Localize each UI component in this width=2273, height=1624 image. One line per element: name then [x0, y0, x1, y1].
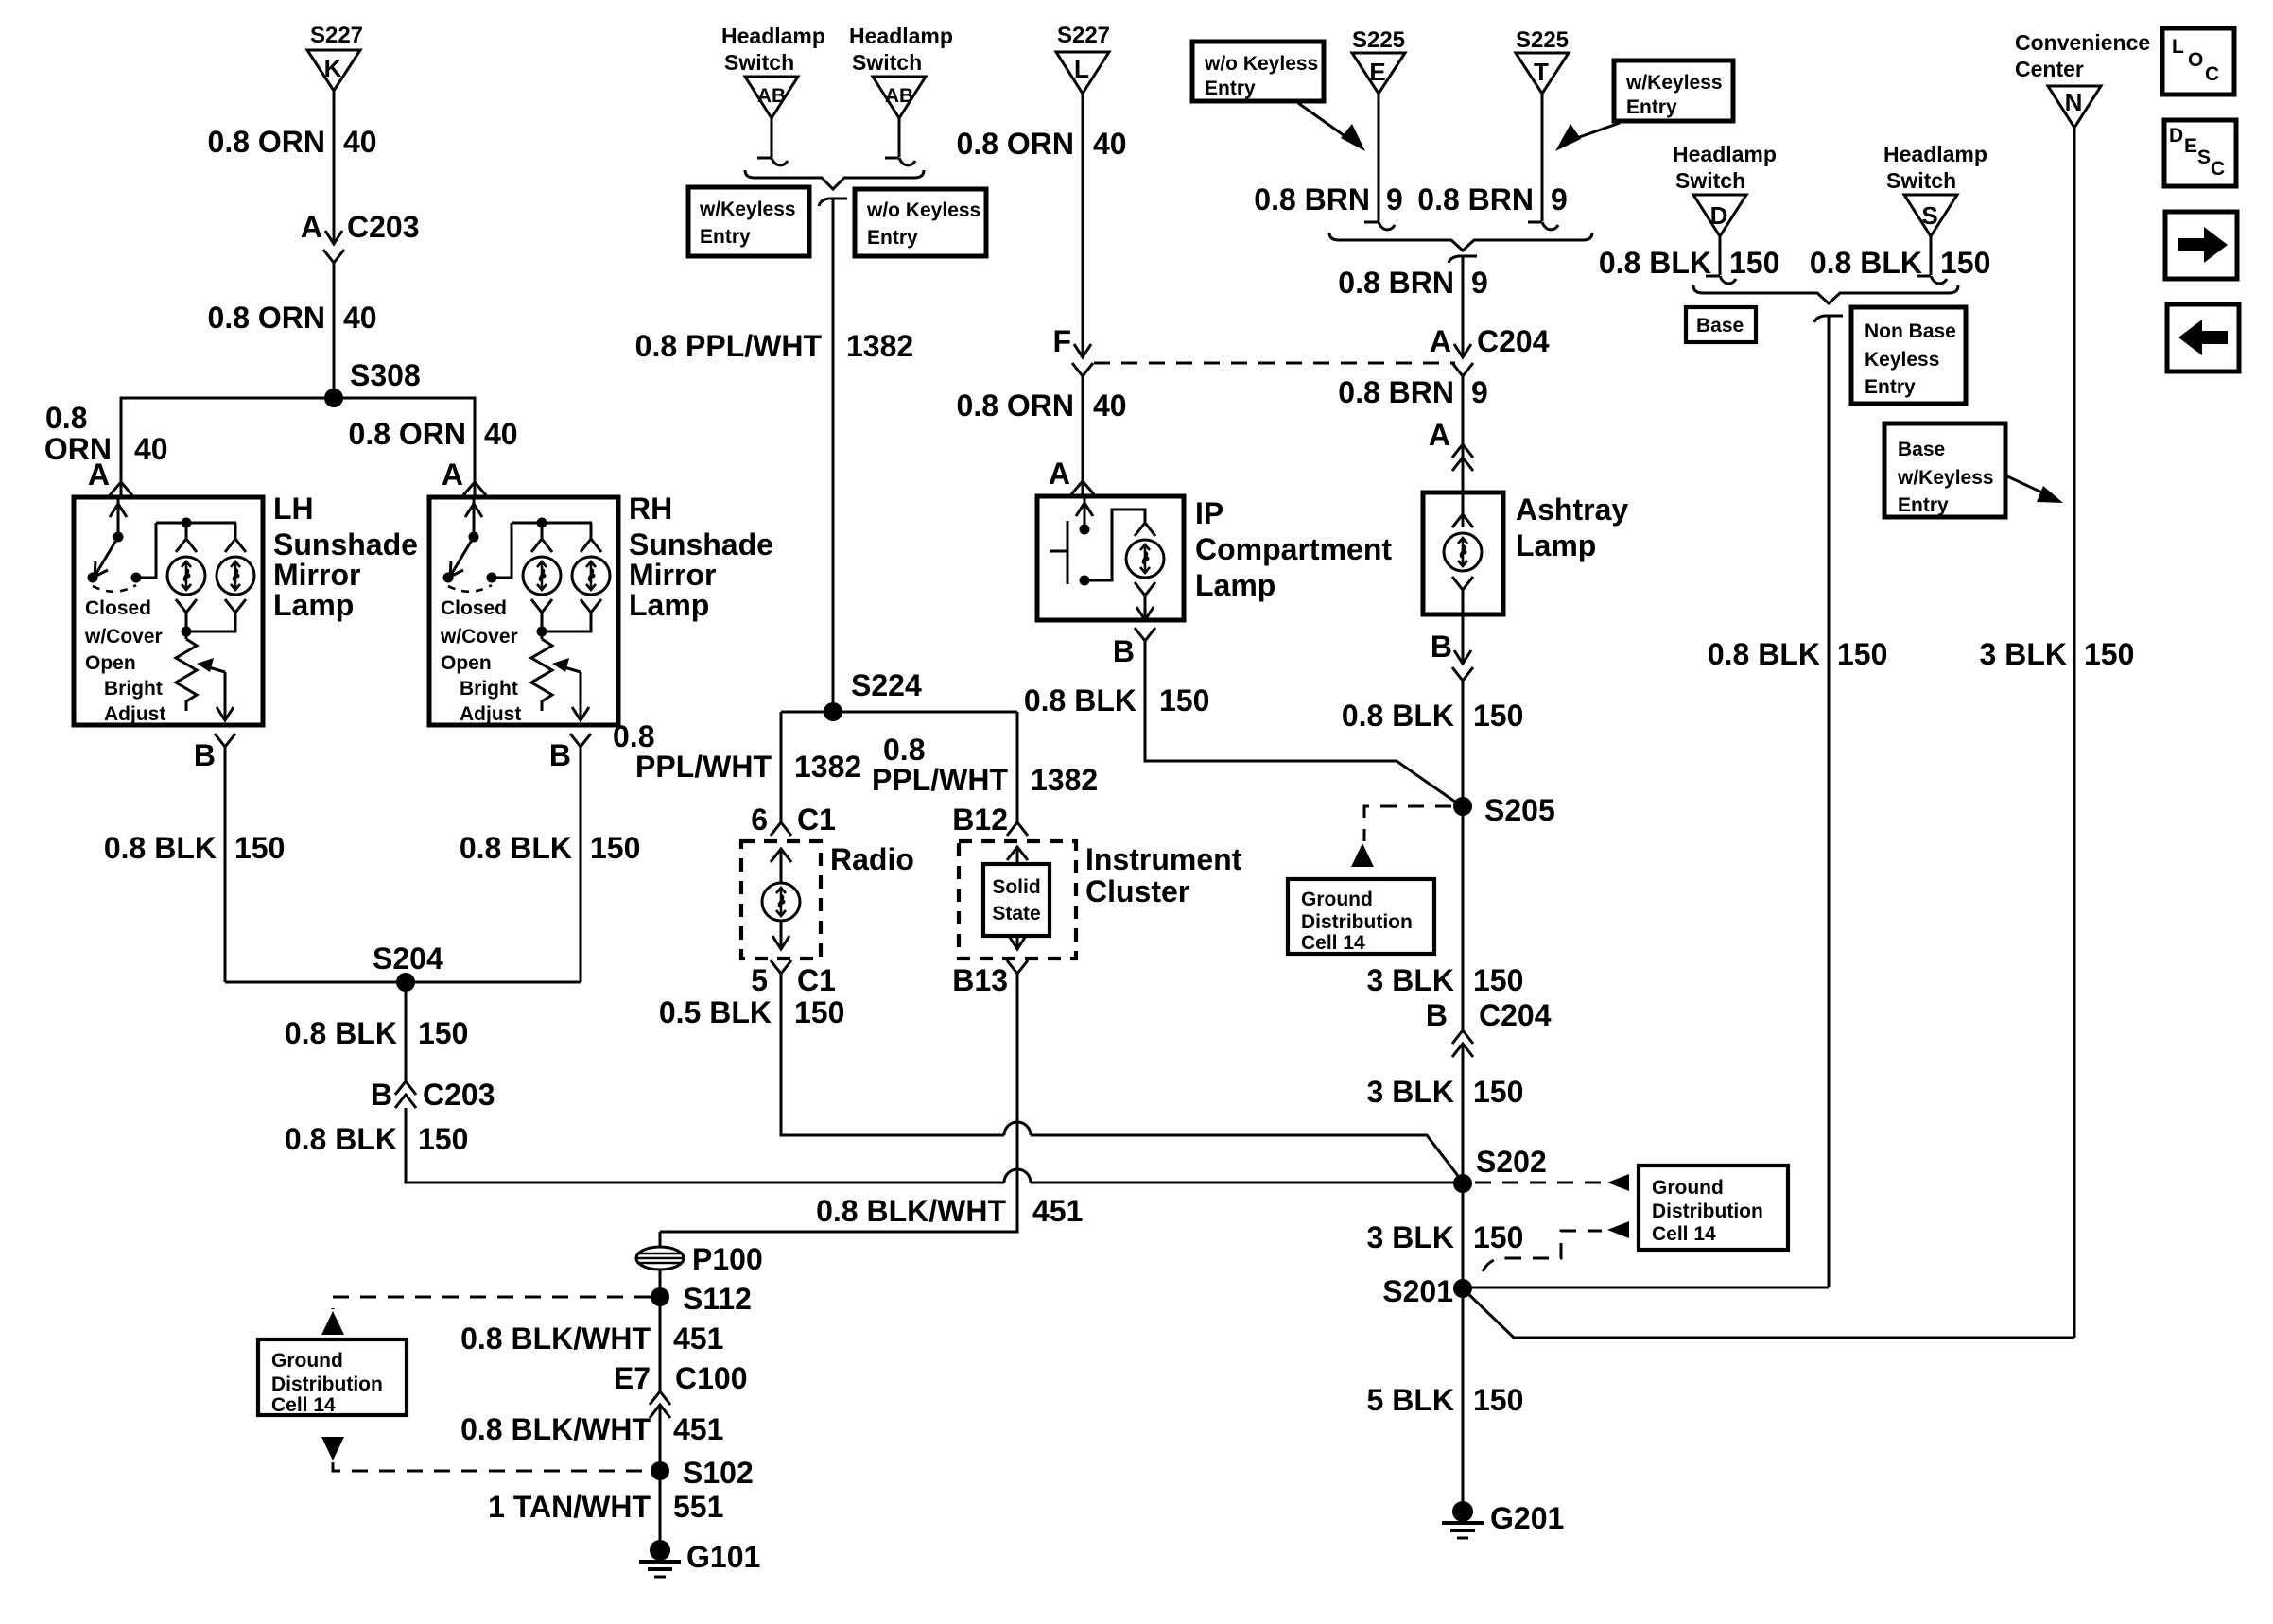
LH lamp branch wire — [156, 523, 236, 539]
splice S205 — [1453, 793, 1555, 827]
ground G201 — [1442, 1501, 1564, 1538]
svg-text:Lamp: Lamp — [1516, 528, 1596, 562]
svg-text:0.8 BRN: 0.8 BRN — [1338, 375, 1454, 409]
connector 5 C1 (radio) — [751, 960, 836, 997]
svg-text:S201: S201 — [1382, 1274, 1453, 1308]
label 0.8 PPL/WHT 1382 — [635, 329, 914, 363]
svg-text:E7: E7 — [614, 1361, 651, 1395]
svg-text:w/Keyless: w/Keyless — [1625, 72, 1723, 94]
svg-text:0.8 BLK: 0.8 BLK — [285, 1122, 397, 1156]
connector B12 (instrument cluster) — [952, 803, 1028, 837]
radio dashed outline — [741, 841, 821, 959]
dashed reference from S205 to ground distribution — [1351, 806, 1451, 867]
dashed reference from S201 to ground distribution — [1483, 1221, 1629, 1271]
svg-text:B: B — [1113, 634, 1135, 668]
svg-text:0.8: 0.8 — [613, 719, 654, 753]
svg-text:Mirror: Mirror — [629, 558, 716, 592]
label 0.8 BLK 150 (S) — [1810, 246, 1991, 280]
svg-text:3 BLK: 3 BLK — [1980, 637, 2067, 671]
wire 0.8 BRN 9 from C204 to ashtray — [1462, 376, 1465, 492]
svg-text:0.8 ORN: 0.8 ORN — [349, 417, 466, 451]
svg-text:1 TAN/WHT: 1 TAN/WHT — [488, 1490, 651, 1524]
wire 3 BLK 150 from S202 to S201 — [1462, 1183, 1465, 1288]
svg-text:Cell 14: Cell 14 — [1652, 1223, 1716, 1245]
label 0.8 PPL/WHT 1382 (cluster feed) — [872, 733, 1098, 797]
RH lamp bulb 2 — [572, 539, 610, 613]
component label LH Sunshade Mirror Lamp — [273, 492, 418, 622]
svg-text:150: 150 — [794, 995, 844, 1029]
svg-text:0.8 BLK: 0.8 BLK — [1810, 246, 1922, 280]
label 0.8 ORN 40 — [208, 301, 377, 335]
connector B C203 — [371, 1078, 495, 1112]
component label Ashtray Lamp — [1516, 492, 1628, 562]
label 0.8 BLK/WHT 451 — [460, 1412, 723, 1446]
node A (LH sunshade lamp pin A) — [88, 458, 132, 495]
svg-text:B: B — [1426, 998, 1448, 1032]
svg-text:0.8 BLK: 0.8 BLK — [1024, 683, 1136, 717]
label 0.8 BLK 150 (ashtray) — [1342, 699, 1524, 733]
label headlamp switch (D) — [1673, 142, 1777, 193]
LH lamp bulb 1 — [167, 539, 205, 613]
label headlamp switch (S) — [1883, 142, 1987, 193]
wire down to P100 — [659, 1232, 662, 1248]
svg-text:C: C — [2205, 63, 2219, 85]
svg-text:Convenience: Convenience — [2015, 30, 2150, 55]
LH sunshade mirror lamp box — [74, 497, 263, 725]
svg-text:Instrument: Instrument — [1085, 842, 1242, 876]
svg-text:40: 40 — [343, 125, 377, 159]
svg-text:State: State — [992, 903, 1040, 924]
box Base w/Keyless Entry — [1884, 423, 2005, 517]
connector S225 T — [1516, 27, 1569, 94]
wire from S201 right to 0.8 BLK wire — [1463, 1287, 1829, 1289]
svg-text:AB: AB — [757, 85, 786, 107]
svg-text:Open: Open — [441, 652, 492, 674]
hook below brace — [819, 199, 847, 206]
cluster input arrow — [1007, 847, 1028, 864]
svg-text:A: A — [1430, 324, 1451, 358]
svg-text:0.8: 0.8 — [45, 401, 87, 435]
wire 0.8 BRN 9 from E — [1364, 94, 1395, 230]
hook below brace (C204 feed) — [1449, 256, 1477, 263]
connector AB headlamp switch (left triangle) — [745, 77, 798, 118]
IP lamp door switch — [1050, 496, 1093, 586]
wire 0.8 ORN 40 from S227 K to C203 — [333, 91, 336, 242]
svg-text:0.8 BRN: 0.8 BRN — [1254, 182, 1370, 216]
svg-text:150: 150 — [2084, 637, 2134, 671]
splice S102 — [651, 1456, 754, 1490]
svg-text:w/Keyless: w/Keyless — [1897, 467, 1994, 489]
label 0.8 BRN 9 (E) — [1254, 182, 1403, 216]
wire 0.8 BRN 9 from T — [1528, 94, 1558, 230]
node A (ashtray lamp pin A) — [1429, 418, 1473, 471]
legend box right arrow — [2165, 212, 2237, 279]
svg-text:0.8 BRN: 0.8 BRN — [1417, 182, 1534, 216]
svg-text:C203: C203 — [423, 1078, 495, 1112]
label 0.5 BLK 150 — [659, 995, 845, 1029]
svg-text:Compartment: Compartment — [1195, 532, 1392, 566]
box w/Keyless Entry (T reference) — [1614, 60, 1733, 121]
svg-text:Switch: Switch — [1675, 168, 1745, 193]
svg-text:9: 9 — [1551, 182, 1568, 216]
component label RH Sunshade Mirror Lamp — [629, 492, 773, 622]
svg-text:B: B — [549, 738, 571, 772]
label Instrument Cluster — [1085, 842, 1242, 908]
splice S112 — [651, 1282, 752, 1316]
label 1 TAN/WHT 551 — [488, 1490, 723, 1524]
hook below brace (ground feed) — [1814, 316, 1843, 322]
ashtray lamp bulb — [1444, 492, 1482, 614]
label 0.8 BRN 9 (T) — [1417, 182, 1568, 216]
svg-text:Center: Center — [2015, 57, 2084, 81]
svg-text:A: A — [301, 210, 322, 244]
svg-text:S102: S102 — [683, 1456, 754, 1490]
svg-text:Bright: Bright — [104, 678, 163, 700]
wire 0.8 BLK/WHT 451 from C100 to S102 — [659, 1405, 662, 1471]
connector N convenience center — [2048, 86, 2101, 128]
svg-text:Solid: Solid — [992, 876, 1040, 898]
wire 1 TAN/WHT 551 from S102 to G101 — [659, 1471, 662, 1541]
wire joining LH and RH at S204 — [225, 981, 581, 984]
brace joining E and T wires — [1329, 233, 1592, 251]
wire 0.8 BLK 150 from C203 to S202 — [406, 1108, 1455, 1183]
arrow from w/Keyless Entry to T wire — [1555, 123, 1620, 151]
node A (RH sunshade lamp pin A) — [442, 458, 486, 495]
wire 0.8 BLK 150 from D — [1706, 236, 1736, 284]
label 0.8 BLK 150 (LH) — [104, 831, 286, 865]
wire lamp outputs join — [186, 613, 235, 639]
svg-text:150: 150 — [1159, 683, 1209, 717]
svg-text:150: 150 — [1837, 637, 1887, 671]
svg-text:150: 150 — [1473, 963, 1523, 997]
svg-text:0.8 BLK: 0.8 BLK — [285, 1016, 397, 1050]
switch position text (RH) — [440, 597, 521, 725]
svg-text:P100: P100 — [692, 1242, 763, 1276]
wire from AB (left) — [757, 118, 788, 165]
ashtray lamp box — [1423, 492, 1503, 614]
svg-text:40: 40 — [484, 417, 518, 451]
wire S308 branch horizontal — [121, 398, 475, 497]
svg-text:40: 40 — [1093, 127, 1127, 161]
dashed reference from S112 to ground distribution — [321, 1297, 651, 1335]
label 3 BLK 150 — [1367, 963, 1524, 997]
label 0.8 BLK 150 — [285, 1016, 469, 1050]
connector 6 C1 (radio) — [751, 803, 836, 837]
svg-text:Headlamp: Headlamp — [721, 24, 825, 48]
svg-text:w/Cover: w/Cover — [84, 626, 163, 648]
wire hop over instrument cluster wire (radio return) — [1004, 1122, 1031, 1135]
svg-text:B: B — [371, 1078, 392, 1112]
svg-text:6: 6 — [751, 803, 768, 837]
label 3 BLK 150 — [1367, 1220, 1524, 1254]
svg-text:Entry: Entry — [1898, 494, 1949, 516]
svg-text:O: O — [2188, 49, 2203, 71]
svg-text:Ashtray: Ashtray — [1516, 492, 1628, 527]
RH lamp cover switch — [443, 497, 512, 592]
radio lamp output arrow — [772, 921, 789, 949]
switch position text (LH) — [84, 597, 165, 725]
wire 3 BLK 150 from N down — [2073, 128, 2076, 1338]
label convenience center — [2015, 30, 2150, 81]
svg-text:E: E — [1369, 58, 1385, 86]
svg-text:551: 551 — [673, 1490, 723, 1524]
svg-text:S204: S204 — [373, 942, 443, 976]
RH lamp bulb 1 — [523, 539, 561, 613]
connector S225 E — [1352, 27, 1405, 94]
svg-text:Entry: Entry — [867, 227, 918, 249]
svg-text:D: D — [2169, 125, 2183, 147]
label 0.8 ORN 40 — [957, 389, 1127, 423]
svg-text:150: 150 — [1729, 246, 1779, 280]
svg-text:S112: S112 — [683, 1282, 752, 1316]
label 0.8 PPL/WHT 1382 (radio feed) — [613, 719, 861, 784]
svg-text:C100: C100 — [675, 1361, 748, 1395]
svg-text:Lamp: Lamp — [1195, 568, 1275, 602]
svg-text:Cluster: Cluster — [1085, 874, 1189, 908]
connector B13 (instrument cluster) — [952, 960, 1028, 997]
svg-text:Closed: Closed — [85, 597, 151, 619]
svg-text:T: T — [1534, 58, 1549, 86]
svg-text:150: 150 — [590, 831, 640, 865]
svg-text:150: 150 — [1940, 246, 1990, 280]
svg-text:Sunshade: Sunshade — [629, 527, 773, 561]
IP compartment lamp box — [1037, 496, 1184, 620]
connector B C204 — [1426, 998, 1552, 1057]
svg-text:B: B — [1431, 630, 1452, 664]
cluster output arrow — [1009, 936, 1026, 949]
junction (RH lamp return) — [537, 627, 547, 637]
svg-text:Non Base: Non Base — [1865, 320, 1956, 342]
svg-text:150: 150 — [1473, 1383, 1523, 1417]
svg-text:3 BLK: 3 BLK — [1367, 963, 1454, 997]
svg-text:Entry: Entry — [1865, 376, 1916, 398]
dashed reference from ground distribution to S102 — [321, 1437, 651, 1471]
svg-text:Bright: Bright — [460, 678, 518, 700]
arrow from Base w/Keyless Entry to convenience center wire — [2005, 475, 2063, 503]
connector A C203 — [301, 210, 420, 263]
svg-text:Headlamp: Headlamp — [1673, 142, 1777, 166]
wire to instrument cluster — [1016, 712, 1019, 822]
svg-text:A: A — [1429, 418, 1450, 452]
arrow from w/o Keyless Entry to E wire — [1298, 103, 1365, 151]
IP lamp output arrow — [1136, 596, 1154, 620]
svg-text:40: 40 — [134, 432, 168, 466]
junction (RH lamp feed) — [537, 518, 547, 528]
wire 0.8 ORN 40 from F to IP lamp — [1082, 376, 1084, 496]
wire 0.8 BLK 150 from LH B to S204 — [224, 747, 227, 982]
wire 3 BLK 150 from S205 to C204 — [1462, 806, 1465, 1030]
svg-text:S227: S227 — [310, 23, 363, 48]
box Ground Distribution Cell 14 (S112/S102) — [258, 1339, 407, 1416]
svg-text:S: S — [1921, 201, 1937, 230]
node A (IP lamp pin A) — [1049, 457, 1094, 494]
svg-text:Base: Base — [1898, 439, 1945, 460]
svg-text:S308: S308 — [350, 358, 421, 392]
svg-text:C204: C204 — [1479, 998, 1552, 1032]
svg-text:Ground: Ground — [1301, 889, 1373, 910]
svg-text:Cell 14: Cell 14 — [1301, 932, 1365, 954]
svg-text:K: K — [324, 54, 342, 82]
svg-text:Ground: Ground — [1652, 1177, 1724, 1199]
svg-text:40: 40 — [343, 301, 377, 335]
label 0.8 BLK 150 (base ground) — [1708, 637, 1888, 671]
svg-text:N: N — [2065, 88, 2083, 116]
svg-text:5 BLK: 5 BLK — [1367, 1383, 1454, 1417]
svg-text:0.8 ORN: 0.8 ORN — [208, 125, 325, 159]
label 0.8 BLK/WHT 451 — [816, 1194, 1083, 1228]
svg-text:B12: B12 — [952, 803, 1008, 837]
wire 0.8 BLK 150 from S — [1917, 236, 1947, 284]
label 5 BLK 150 — [1367, 1383, 1524, 1417]
label headlamp switch (left) — [721, 24, 825, 75]
svg-text:0.5 BLK: 0.5 BLK — [659, 995, 772, 1029]
wire lamp outputs join (RH) — [542, 613, 591, 639]
node B (RH pin B) — [549, 734, 591, 772]
wire 3 BLK 150 from C204 to S202 — [1462, 1044, 1465, 1183]
box w/o Keyless Entry (E reference) — [1192, 42, 1324, 101]
svg-text:Switch: Switch — [852, 50, 922, 75]
wire 5 BLK 150 from S201 to G201 — [1462, 1288, 1465, 1503]
svg-text:150: 150 — [418, 1016, 468, 1050]
svg-text:Keyless: Keyless — [1865, 349, 1939, 371]
label 0.8 BLK 150 (IP) — [1024, 683, 1210, 717]
resistor bright adjust (RH) — [531, 639, 552, 711]
svg-text:B13: B13 — [952, 963, 1008, 997]
svg-text:0.8 BLK/WHT: 0.8 BLK/WHT — [460, 1412, 651, 1446]
svg-text:9: 9 — [1471, 375, 1488, 409]
svg-text:Cell 14: Cell 14 — [271, 1394, 336, 1416]
wiper arrow (LH bright adjust) — [197, 658, 234, 720]
connector A C204 — [1430, 324, 1550, 376]
wire 0.8 BLK/WHT 451 from B13 to P100 run — [660, 974, 1017, 1232]
svg-text:S202: S202 — [1476, 1145, 1547, 1179]
wire 0.8 BLK 150 from ashtray B to S205 — [1462, 681, 1465, 806]
svg-text:0.8 ORN: 0.8 ORN — [957, 389, 1074, 423]
IP lamp wire to bulb — [1084, 510, 1145, 580]
svg-text:RH: RH — [629, 492, 672, 526]
svg-text:Mirror: Mirror — [273, 558, 360, 592]
solid state box — [983, 864, 1050, 936]
svg-text:IP: IP — [1195, 496, 1223, 530]
connector AB headlamp switch (right triangle) — [873, 77, 926, 118]
wire 0.8 BLK 150 down to S201 — [1828, 316, 1831, 1287]
svg-text:1382: 1382 — [794, 750, 861, 784]
svg-text:Distribution: Distribution — [1301, 911, 1413, 933]
wire S224 branch horizontal — [781, 711, 1017, 714]
svg-text:150: 150 — [234, 831, 285, 865]
label 0.8 BLK 150 (D) — [1599, 246, 1780, 280]
svg-text:150: 150 — [1473, 1220, 1523, 1254]
svg-text:A: A — [442, 458, 463, 492]
wire hop over instrument cluster wire — [1004, 1169, 1031, 1183]
radio illumination lamp — [762, 883, 800, 921]
label 0.8 BLK 150 (RH) — [460, 831, 641, 865]
svg-text:Headlamp: Headlamp — [849, 24, 953, 48]
svg-text:AB: AB — [885, 85, 913, 107]
junction (LH lamp return) — [182, 627, 192, 637]
svg-text:L: L — [2172, 36, 2184, 58]
svg-text:w/Keyless: w/Keyless — [699, 199, 796, 220]
wire from AB (right) — [885, 118, 915, 165]
svg-text:0.8 BLK/WHT: 0.8 BLK/WHT — [816, 1194, 1006, 1228]
svg-text:PPL/WHT: PPL/WHT — [635, 750, 772, 784]
svg-text:w/o Keyless: w/o Keyless — [1204, 53, 1318, 75]
svg-text:C204: C204 — [1477, 324, 1550, 358]
IP lamp bulb — [1126, 523, 1164, 596]
svg-text:0.8 PPL/WHT: 0.8 PPL/WHT — [635, 329, 823, 363]
svg-text:150: 150 — [418, 1122, 468, 1156]
connector S227 K (to headlamp switch) — [307, 23, 363, 91]
svg-text:40: 40 — [1093, 389, 1127, 423]
resistor bright adjust (LH) — [176, 639, 197, 711]
svg-text:Switch: Switch — [1886, 168, 1956, 193]
svg-text:Lamp: Lamp — [629, 588, 709, 622]
svg-text:451: 451 — [1032, 1194, 1083, 1228]
svg-text:C: C — [2211, 158, 2225, 180]
brace joining D and S wires — [1693, 285, 1958, 303]
svg-text:B: B — [194, 738, 216, 772]
box Ground Distribution Cell 14 (S205) — [1288, 879, 1434, 954]
dashed reference from S202 to ground distribution — [1475, 1174, 1629, 1191]
svg-text:Entry: Entry — [700, 226, 751, 248]
svg-text:Switch: Switch — [724, 50, 794, 75]
LH lamp bulb 2 — [217, 539, 254, 613]
label 0.8 ORN 40 (LH branch) — [44, 401, 168, 466]
label 0.8 BRN 9 — [1338, 375, 1488, 409]
label 0.8 BLK/WHT 451 — [460, 1322, 723, 1356]
svg-text:A: A — [88, 458, 110, 492]
svg-text:F: F — [1052, 324, 1071, 358]
svg-text:L: L — [1074, 55, 1089, 83]
node B (ashtray pin B) — [1431, 614, 1473, 681]
svg-text:Closed: Closed — [441, 597, 507, 619]
svg-text:9: 9 — [1386, 182, 1403, 216]
connector S227 L — [1056, 23, 1110, 94]
label 3 BLK 150 — [1367, 1075, 1524, 1109]
svg-text:Ground: Ground — [271, 1350, 343, 1372]
label 0.8 BLK 150 — [285, 1122, 469, 1156]
svg-text:G201: G201 — [1490, 1501, 1564, 1535]
splice S204 — [373, 942, 443, 992]
instrument cluster dashed outline — [959, 841, 1076, 959]
wire P100 to S112 — [659, 1270, 662, 1297]
wire 0.8 BLK 150 from S204 to C203 — [405, 982, 408, 1081]
brace joining AB wires — [745, 170, 924, 189]
svg-text:Radio: Radio — [830, 842, 914, 876]
svg-text:Distribution: Distribution — [1652, 1201, 1763, 1222]
svg-text:0.8 BLK/WHT: 0.8 BLK/WHT — [460, 1322, 651, 1356]
ground G101 — [639, 1540, 760, 1577]
wiper arrow (RH bright adjust) — [552, 658, 589, 720]
wire 0.8 PPL/WHT 1382 down to S224 — [832, 199, 835, 712]
svg-text:1382: 1382 — [846, 329, 913, 363]
svg-text:G101: G101 — [686, 1540, 760, 1574]
box w/Keyless Entry — [688, 187, 809, 256]
radio lamp input arrow — [771, 849, 791, 883]
connector D headlamp switch — [1693, 195, 1746, 236]
splice S308 — [324, 358, 421, 407]
svg-text:Distribution: Distribution — [271, 1373, 383, 1395]
junction (LH lamp feed) — [182, 518, 192, 528]
label 3 BLK 150 (convenience center) — [1980, 637, 2135, 671]
svg-text:E: E — [2184, 135, 2197, 157]
svg-text:S205: S205 — [1484, 793, 1555, 827]
svg-text:LH: LH — [273, 492, 314, 526]
svg-text:Adjust: Adjust — [460, 703, 521, 725]
svg-text:Sunshade: Sunshade — [273, 527, 418, 561]
svg-text:451: 451 — [673, 1412, 723, 1446]
svg-text:S225: S225 — [1516, 27, 1569, 53]
